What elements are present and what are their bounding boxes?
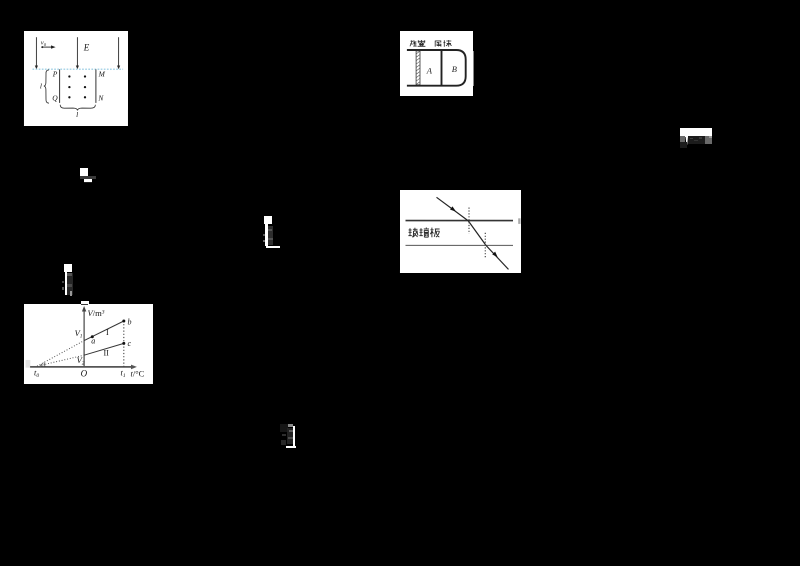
svg-text:M: M <box>98 70 106 79</box>
svg-text:N: N <box>97 94 104 103</box>
svg-text:c: c <box>127 339 131 348</box>
svg-text:a: a <box>91 336 95 345</box>
svg-text:l: l <box>40 82 42 91</box>
svg-text:B: B <box>451 64 456 74</box>
svg-text:O: O <box>80 368 87 378</box>
svg-text:I: I <box>106 328 109 337</box>
svg-text:v0: v0 <box>41 40 47 47</box>
svg-text:P: P <box>52 70 58 79</box>
svg-text:t1: t1 <box>120 368 125 380</box>
svg-text:V/m3: V/m3 <box>87 308 104 318</box>
svg-text:V2: V2 <box>76 355 84 367</box>
svg-text:E: E <box>83 43 90 53</box>
svg-text:l: l <box>76 110 78 119</box>
svg-text:t0: t0 <box>33 367 38 379</box>
svg-text:A: A <box>425 65 432 75</box>
svg-text:t/°C: t/°C <box>130 369 144 379</box>
svg-text:II: II <box>103 348 109 357</box>
svg-text:b: b <box>127 318 131 327</box>
svg-text:V1: V1 <box>74 328 82 340</box>
svg-text:Q: Q <box>52 94 58 103</box>
